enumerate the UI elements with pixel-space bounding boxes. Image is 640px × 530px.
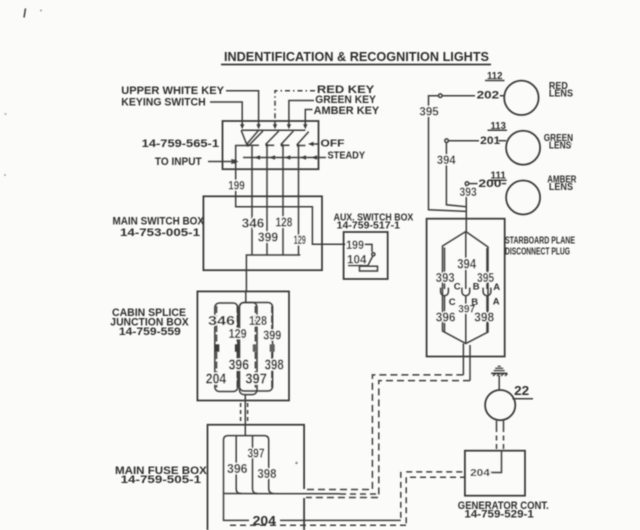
underline 111 <box>489 179 507 181</box>
wire B out <box>465 296 467 344</box>
wire C feed <box>444 248 446 290</box>
switch blade 4 <box>297 132 309 145</box>
dashed risers <box>400 472 402 521</box>
lamp 111 amber lens <box>506 181 540 215</box>
svg-text:14-759-529-1: 14-759-529-1 <box>464 509 533 521</box>
svg-text:DISCONNECT PLUG: DISCONNECT PLUG <box>505 247 570 258</box>
speck right <box>570 143 572 145</box>
svg-text:22: 22 <box>514 384 529 398</box>
STEADY bus <box>243 157 326 159</box>
svg-text:202: 202 <box>477 89 499 101</box>
svg-text:204: 204 <box>470 467 490 479</box>
wire leader red key (dash-dot) <box>275 91 315 121</box>
contact tick 2 <box>266 144 275 146</box>
main fuse box 14-759-505-1 <box>208 425 305 530</box>
underline 22 <box>512 398 533 400</box>
speck left low <box>4 174 6 176</box>
svg-text:STEADY: STEADY <box>328 150 366 162</box>
svg-text:398: 398 <box>265 357 284 373</box>
plug exit pair <box>462 344 464 375</box>
svg-text:397: 397 <box>248 446 265 461</box>
connector 200 <box>465 182 469 186</box>
fuse channel divider 1 <box>236 436 241 494</box>
svg-text:TO INPUT: TO INPUT <box>155 156 202 168</box>
svg-text:398: 398 <box>257 466 276 481</box>
OFF line with arrow <box>311 143 320 145</box>
speck fuse area <box>295 462 297 464</box>
svg-text:204: 204 <box>206 372 226 388</box>
connector 202 <box>439 94 443 98</box>
cable staircase to fuse box (dashed pair) <box>305 375 464 490</box>
contact tick 1 <box>246 144 259 146</box>
switch actuator V <box>241 130 246 144</box>
svg-text:398: 398 <box>474 309 494 324</box>
lamp 113 green lens <box>506 131 540 165</box>
bus arrowheads <box>255 155 318 160</box>
switch blade 1 <box>250 131 263 145</box>
wire 104 <box>348 265 367 267</box>
aux switch box 14-759-517-1 <box>344 232 388 279</box>
svg-text:14-759-565-1: 14-759-565-1 <box>142 138 219 150</box>
wire leader amber key <box>305 110 312 122</box>
svg-text:INDENTIFICATION & RECOGNITION: INDENTIFICATION & RECOGNITION LIGHTS <box>224 49 489 64</box>
wire into splice box <box>245 291 247 302</box>
wire B feed <box>465 232 467 290</box>
splice channel B <box>239 303 272 392</box>
svg-text:UPPER WHITE KEY: UPPER WHITE KEY <box>121 85 224 97</box>
wire 346 drop <box>251 196 253 255</box>
svg-text:LENS: LENS <box>549 89 573 100</box>
wire C out <box>444 296 446 332</box>
switch blade 2 <box>266 131 279 145</box>
svg-text:393: 393 <box>460 187 477 199</box>
svg-text:129: 129 <box>229 326 247 341</box>
cable bus <box>246 255 300 291</box>
contact tick 3 <box>281 144 290 146</box>
svg-text:STARBOARD PLANE: STARBOARD PLANE <box>505 236 575 247</box>
splice box exit wire <box>244 395 246 436</box>
svg-text:LENS: LENS <box>549 141 572 152</box>
splice connector 4 <box>270 344 275 352</box>
svg-text:14-759-505-1: 14-759-505-1 <box>121 474 202 486</box>
main switch box 14-753-005-1 <box>203 196 322 270</box>
wire 199 internal step <box>236 144 247 196</box>
title underline <box>221 64 491 66</box>
svg-text:201: 201 <box>480 135 500 147</box>
fuse bus <box>224 493 341 495</box>
ground stem <box>498 376 500 391</box>
splice connector 2 <box>235 344 240 352</box>
svg-text:128: 128 <box>249 313 267 328</box>
wire 394 vertical <box>446 143 466 207</box>
circle 22 tail stubs <box>496 421 498 427</box>
wire 395 vertical <box>429 96 467 212</box>
svg-text:104: 104 <box>347 255 367 267</box>
fuse 204 drop <box>224 494 230 521</box>
splice channel A <box>215 303 238 392</box>
splice column wires <box>217 306 272 388</box>
svg-text:KEYING SWITCH: KEYING SWITCH <box>121 96 205 108</box>
aux switch body <box>360 266 378 271</box>
wire 202 <box>442 95 475 97</box>
pin B socket <box>462 288 470 296</box>
svg-text:394: 394 <box>437 155 456 167</box>
wire TO INPUT with arrow <box>208 161 234 163</box>
dashed wire pair into generator <box>406 471 465 473</box>
dashed pair to generator <box>496 427 498 451</box>
dashed parallel 204 <box>230 524 406 526</box>
svg-text:LENS: LENS <box>549 182 573 193</box>
svg-text:399: 399 <box>263 327 281 342</box>
wire 399 drop <box>266 196 268 255</box>
wire 201 <box>448 140 479 142</box>
pole drop wires <box>251 145 253 196</box>
aux switch lever <box>368 256 373 266</box>
svg-text:C: C <box>454 282 461 293</box>
splice connector 1 <box>214 344 219 352</box>
keying switch box 14-759-565-1 <box>223 121 319 169</box>
wire 128 drop <box>282 196 284 255</box>
wire leader green key <box>289 101 314 122</box>
wire 204 in generator <box>490 451 502 473</box>
lamp 112 red lens <box>504 81 538 115</box>
wire leader upper white key <box>226 91 259 121</box>
svg-text:393: 393 <box>436 271 455 285</box>
svg-text:129: 129 <box>294 233 306 247</box>
svg-text:346: 346 <box>242 216 264 231</box>
underline 113 <box>488 129 508 131</box>
wire 199 to aux internal path <box>236 196 346 244</box>
fuse channel outer <box>224 436 274 494</box>
wire 200 <box>469 183 478 185</box>
connector 201 <box>445 139 449 143</box>
switch pivot bar <box>241 129 305 131</box>
junction circle 22 <box>485 390 515 420</box>
wire A out <box>486 296 488 332</box>
splice connector 3 <box>253 344 258 352</box>
svg-text:14-759-559: 14-759-559 <box>119 326 181 338</box>
svg-text:B: B <box>471 297 478 308</box>
svg-text:OFF: OFF <box>321 138 346 150</box>
aux switch contact <box>372 253 375 256</box>
speck left mid <box>5 113 7 115</box>
contact tick 4 <box>297 145 306 147</box>
svg-text:AMBER KEY: AMBER KEY <box>314 105 380 117</box>
starboard plane disconnect plug box <box>427 219 505 357</box>
generator cont box <box>465 451 525 496</box>
speck top left <box>24 9 26 18</box>
switch blade 3 <box>281 131 294 145</box>
svg-text:395: 395 <box>419 106 439 118</box>
exit wire dashed flanks <box>240 403 242 424</box>
svg-text:399: 399 <box>258 229 278 244</box>
speck dot <box>40 10 42 12</box>
svg-text:B: B <box>473 282 480 293</box>
aux switch wire <box>365 244 373 252</box>
svg-text:199: 199 <box>346 240 364 252</box>
svg-text:128: 128 <box>276 215 293 230</box>
fuse bus dashed extension <box>340 493 377 495</box>
underline 112 <box>485 80 505 82</box>
wire 129 drop <box>298 196 300 255</box>
splice channel C <box>239 303 257 395</box>
svg-text:396: 396 <box>227 461 248 476</box>
svg-text:397: 397 <box>245 372 267 388</box>
pin C socket <box>441 288 449 296</box>
wire 204 from fuse box <box>229 519 249 521</box>
switch pole feed arrows (5) <box>240 121 307 129</box>
wire A feed <box>486 248 488 289</box>
fuse channel divider 2 <box>253 436 258 494</box>
svg-text:394: 394 <box>457 257 476 272</box>
svg-text:199: 199 <box>228 181 244 193</box>
plug hexagon body <box>443 232 489 344</box>
svg-text:A: A <box>493 296 500 307</box>
pin A socket <box>483 288 491 296</box>
svg-text:200: 200 <box>478 178 501 190</box>
svg-text:MAIN SWITCH BOX: MAIN SWITCH BOX <box>113 216 205 228</box>
svg-text:A: A <box>493 282 500 293</box>
svg-text:14-753-005-1: 14-753-005-1 <box>120 227 200 239</box>
svg-text:14-759-517-1: 14-759-517-1 <box>337 221 401 232</box>
svg-text:396: 396 <box>436 309 456 324</box>
wire leader keying switch <box>210 102 242 121</box>
ground <box>491 366 507 376</box>
wire 393 vertical <box>465 185 467 231</box>
cabin splice junction box <box>197 291 289 400</box>
svg-text:C: C <box>449 297 456 308</box>
